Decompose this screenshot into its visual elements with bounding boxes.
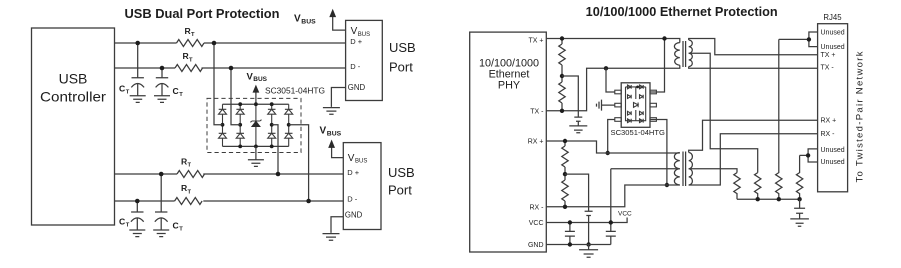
- wire T2 primary center tap to VCC: [611, 168, 680, 170]
- svg-text:Unused: Unused: [821, 44, 845, 51]
- wire chip pin1R to TX+: [650, 36, 667, 92]
- ground port2: [323, 217, 344, 241]
- svg-text:BUS: BUS: [327, 131, 342, 138]
- junction dot RX cap to GND wire: [586, 242, 590, 246]
- wire tap D+1 to array col1: [212, 41, 223, 125]
- svg-text:D +: D +: [350, 37, 363, 46]
- capacitor RX midpoint: [565, 174, 593, 244]
- capacitor chassis (Bob Smith): [790, 199, 809, 226]
- diode D3 top col2: [236, 104, 244, 125]
- wire chip pin1L to TX-: [606, 68, 615, 92]
- svg-text:D -: D -: [350, 62, 361, 71]
- resistor RT8 (RX- term): [562, 174, 568, 207]
- VBUS arrow port2: [320, 126, 344, 158]
- ground (main, below GND wire): [579, 245, 598, 258]
- svg-text:D +: D +: [347, 168, 360, 177]
- svg-text:C: C: [119, 217, 125, 227]
- wire VCC: [546, 218, 627, 223]
- wire tap array col3 to D+2: [272, 125, 281, 177]
- svg-text:To Twisted-Pair Network: To Twisted-Pair Network: [855, 51, 866, 182]
- diode D6 bottom col3: [268, 125, 276, 147]
- TVS array dashed box SC3051-04HTG: [207, 98, 301, 152]
- svg-text:T: T: [188, 163, 192, 169]
- wire T1 secondary bottom to RJ45 TX-: [689, 67, 818, 69]
- wire RX+ PHY to T2: [546, 141, 680, 153]
- svg-text:USB: USB: [389, 40, 416, 55]
- wire T1 secondary top to RJ45 TX+: [689, 39, 818, 55]
- svg-text:T: T: [126, 90, 130, 96]
- capacitor CT4: [153, 174, 183, 237]
- RJ45 connector box J3: [818, 24, 848, 192]
- resistor R2 (Bob Smith): [755, 173, 761, 200]
- resistor RT3: [177, 157, 205, 178]
- svg-text:USB: USB: [59, 71, 88, 87]
- svg-text:RX +: RX +: [821, 118, 837, 125]
- svg-text:BUS: BUS: [355, 159, 367, 165]
- wire unused pair top: [779, 32, 818, 47]
- svg-text:BUS: BUS: [301, 19, 316, 26]
- svg-text:Unused: Unused: [821, 147, 845, 154]
- svg-text:T: T: [189, 57, 193, 63]
- junction dots Bob Smith rail: [756, 197, 802, 201]
- capacitor CT2: [154, 68, 183, 102]
- wire chip pin3R to RX-: [650, 120, 669, 188]
- resistor rail Bob Smith: [737, 198, 800, 200]
- junction dots array rails: [238, 102, 273, 148]
- ground (chip pin2L, rotated): [597, 100, 615, 111]
- transformer T1 core: [683, 41, 686, 67]
- wire TX- PHY riser: [546, 65, 680, 111]
- svg-text:RX +: RX +: [528, 139, 544, 146]
- svg-text:USB: USB: [388, 165, 415, 180]
- capacitor CT3: [119, 201, 145, 237]
- resistor RT1: [177, 26, 205, 47]
- title 10/100/1000 Ethernet Protection: [586, 5, 778, 19]
- wire T2 secondary top to RJ45 RX+: [689, 120, 818, 152]
- svg-text:RJ45: RJ45: [823, 13, 842, 22]
- svg-text:Port: Port: [389, 60, 413, 75]
- label To Twisted-Pair Network: [855, 51, 866, 182]
- diode D5 top col3: [268, 104, 276, 125]
- svg-text:BUS: BUS: [253, 76, 267, 83]
- chip U1 SC3051-04HTG: [615, 83, 657, 128]
- svg-text:SC3051-04HTG: SC3051-04HTG: [611, 128, 666, 137]
- zener TVS Z1: [250, 104, 261, 146]
- junction dots TX termination: [560, 36, 608, 113]
- wire RX- PHY riser: [546, 185, 680, 207]
- junction dot cap3/wire4: [135, 199, 140, 204]
- wire D+ port1: [115, 42, 346, 44]
- diode D4 bottom col2: [236, 125, 244, 147]
- wire tap D-1 to array col2: [229, 66, 241, 125]
- wire tap array col4 to D-2: [289, 125, 311, 204]
- svg-text:GND: GND: [348, 83, 366, 92]
- svg-text:C: C: [119, 83, 125, 93]
- junction dots array midpoints: [221, 123, 291, 127]
- resistor RT6 (TX- term): [559, 76, 565, 111]
- svg-text:TX +: TX +: [529, 38, 544, 45]
- label SC3051-04HTG: [265, 85, 325, 95]
- diode D7 top col4: [285, 104, 293, 125]
- wire D- port1: [115, 67, 346, 69]
- svg-text:C: C: [173, 86, 179, 96]
- wire GND: [546, 244, 611, 246]
- wire TX+ PHY to T1: [546, 39, 680, 43]
- diode D1 top col1: [219, 104, 227, 125]
- label USB Port 2: [388, 165, 415, 198]
- USB Port 2 box J2: [343, 143, 381, 230]
- svg-text:V: V: [294, 14, 301, 25]
- wire D+ port2: [115, 173, 344, 175]
- svg-text:T: T: [179, 227, 183, 233]
- svg-text:PHY: PHY: [498, 80, 520, 92]
- svg-text:VCC: VCC: [529, 220, 544, 227]
- svg-text:GND: GND: [528, 242, 544, 249]
- ground port1: [323, 88, 346, 115]
- bottom rail: [223, 145, 289, 147]
- svg-text:Port: Port: [388, 183, 412, 198]
- capacitor TX midpoint: [562, 76, 587, 133]
- svg-text:V: V: [348, 153, 355, 164]
- junction dot cap4/wire3: [159, 172, 164, 177]
- label VCC net: [618, 211, 632, 218]
- junction dots RX termination: [563, 139, 567, 209]
- VBUS arrow (array): [247, 71, 268, 104]
- svg-text:GND: GND: [345, 211, 363, 220]
- label SC3051-04HTG (chip): [611, 128, 666, 137]
- svg-text:SC3051-04HTG: SC3051-04HTG: [265, 85, 325, 95]
- svg-text:C: C: [173, 221, 179, 231]
- VBUS arrow port1: [294, 9, 346, 30]
- junction dot cap2/wire2: [160, 66, 165, 71]
- svg-text:T: T: [191, 32, 195, 38]
- ground (array zener): [248, 146, 264, 166]
- svg-text:D -: D -: [347, 195, 358, 204]
- resistor RT4: [175, 183, 203, 204]
- svg-text:RX -: RX -: [530, 204, 545, 211]
- svg-text:Unused: Unused: [821, 29, 845, 36]
- resistor R3 (Bob Smith): [776, 39, 782, 199]
- svg-text:RX -: RX -: [821, 131, 836, 138]
- diode D2 bottom col1: [219, 125, 227, 147]
- title USB Dual Port Protection: [125, 6, 280, 21]
- svg-text:10/100/1000 Ethernet Protectio: 10/100/1000 Ethernet Protection: [586, 5, 778, 19]
- resistor RT7 (RX+ term): [562, 141, 568, 174]
- capacitor VCC decoupling 2 (center tap): [606, 169, 616, 245]
- transformer T1 secondary coil: [689, 40, 693, 67]
- Ethernet PHY box U3: [470, 32, 547, 252]
- wire T2 secondary bottom to RJ45 RX-: [689, 134, 818, 185]
- svg-text:TX -: TX -: [821, 65, 835, 72]
- transformer T2 core: [683, 152, 686, 187]
- svg-text:Controller: Controller: [40, 89, 106, 105]
- transformer T1 primary coil: [674, 43, 679, 66]
- wire T2 secondary center tap: [689, 169, 737, 173]
- resistor RT2: [175, 51, 203, 71]
- transformer T2 primary coil: [674, 153, 679, 186]
- label RJ45: [823, 13, 842, 22]
- resistor RT5 (TX+ term): [559, 39, 565, 77]
- resistor R4 (Bob Smith): [796, 155, 802, 199]
- USB Port 1 box J1: [346, 20, 383, 100]
- junction dot cap1/wire1: [135, 41, 140, 46]
- label USB Port 1: [389, 40, 416, 75]
- wire D- port2: [115, 200, 344, 202]
- svg-text:V: V: [351, 26, 358, 37]
- wire T1 secondary center tap: [689, 53, 758, 172]
- top rail VBUS: [223, 103, 289, 105]
- capacitor VCC decoupling 1: [565, 220, 575, 246]
- svg-text:TX +: TX +: [821, 52, 836, 59]
- wire unused pair bottom: [800, 149, 818, 162]
- svg-text:USB Dual Port Protection: USB Dual Port Protection: [125, 6, 280, 21]
- resistor R1 (Bob Smith): [734, 173, 740, 200]
- wire chip pin3L to RX+: [606, 120, 615, 156]
- capacitor CT1: [119, 43, 146, 102]
- svg-text:Unused: Unused: [821, 159, 845, 166]
- svg-text:T: T: [179, 92, 183, 98]
- svg-text:T: T: [126, 223, 130, 229]
- svg-text:TX -: TX -: [530, 108, 544, 115]
- diode D8 bottom col4: [285, 125, 293, 147]
- svg-text:VCC: VCC: [618, 211, 632, 218]
- svg-text:V: V: [320, 126, 327, 137]
- svg-text:T: T: [188, 189, 192, 195]
- transformer T2 secondary coil: [689, 153, 693, 186]
- USB Controller box U2: [32, 28, 115, 225]
